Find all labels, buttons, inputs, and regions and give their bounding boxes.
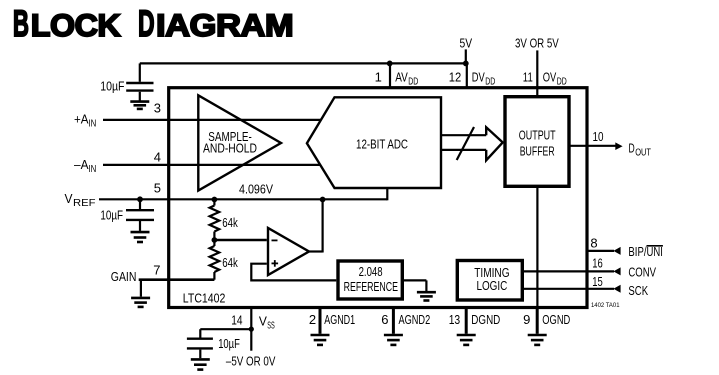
label DOUT — [629, 141, 652, 159]
label 4.096V — [239, 181, 273, 196]
svg-text:CONV: CONV — [628, 264, 656, 279]
svg-text:DD: DD — [485, 76, 495, 87]
bus wire ADC to output buffer — [441, 135, 486, 150]
svg-text:OV: OV — [543, 69, 557, 84]
wire OVDD riser to output buffer — [536, 50, 538, 96]
svg-text:SS: SS — [267, 321, 275, 332]
node 5V riser — [465, 49, 467, 63]
junction pin12 — [463, 61, 469, 67]
pin 12 tick — [466, 63, 468, 87]
capacitor C3 10uF (VSS) — [187, 329, 213, 358]
block TIMING LOGIC — [457, 261, 522, 301]
svg-text:1402 TA01: 1402 TA01 — [591, 302, 620, 309]
label GAIN — [111, 269, 137, 284]
svg-text:3: 3 — [154, 101, 161, 116]
label CONV — [628, 264, 656, 279]
svg-text:SCK: SCK — [628, 283, 648, 298]
svg-text:V: V — [259, 314, 267, 329]
label +AIN — [74, 112, 96, 130]
pin number 16 — [592, 256, 603, 271]
pin 14 VSS tick and wire — [200, 308, 254, 351]
svg-text:6: 6 — [381, 312, 388, 327]
wire AVDD bypass rail — [140, 62, 466, 64]
svg-text:12: 12 — [449, 69, 462, 84]
pin 1 tick — [389, 63, 391, 87]
svg-text:5: 5 — [154, 180, 161, 195]
bus arrowhead — [486, 127, 503, 160]
svg-text:–5V OR 0V: –5V OR 0V — [226, 354, 276, 369]
ground (AGND1) — [311, 335, 330, 345]
junction pin1 — [387, 61, 393, 67]
svg-text:AGND1: AGND1 — [324, 312, 355, 327]
svg-text:D: D — [138, 2, 154, 44]
wire inverting input — [214, 239, 266, 242]
svg-text:AND-HOLD: AND-HOLD — [203, 140, 257, 155]
pin label 13 DGND — [449, 312, 501, 327]
block OUTPUT BUFFER — [505, 97, 569, 187]
label 10uF C3 — [218, 336, 240, 351]
svg-text:1: 1 — [375, 69, 382, 84]
pin label 2 AGND1 — [309, 312, 355, 327]
ground (DGND) — [457, 335, 476, 345]
svg-text:10: 10 — [593, 129, 604, 144]
svg-text:D: D — [629, 141, 635, 156]
svg-text:GAIN: GAIN — [111, 269, 137, 284]
ground (OGND) — [528, 335, 547, 345]
svg-text:V: V — [65, 191, 73, 206]
wire DOUT pin 10 — [569, 145, 616, 147]
svg-text:2: 2 — [309, 312, 316, 327]
pin label 9 OGND — [523, 312, 570, 327]
svg-text:+A: +A — [74, 112, 89, 127]
block 12-BIT ADC — [307, 97, 441, 188]
svg-text:–A: –A — [74, 157, 89, 172]
pin number 3 — [154, 101, 161, 116]
svg-text:DV: DV — [472, 69, 485, 84]
svg-text:64k: 64k — [222, 255, 238, 270]
svg-text:OUTPUT: OUTPUT — [519, 128, 556, 143]
pin 6 AGND2 tick — [392, 308, 395, 334]
wire GAIN pin 7 — [139, 278, 215, 281]
svg-text:LOCK: LOCK — [31, 7, 121, 43]
op-amp buffer triangle (sample-and-hold) U1 — [198, 95, 281, 190]
svg-text:BUFFER: BUFFER — [520, 144, 555, 159]
label SAMPLE-AND-HOLD — [203, 129, 257, 156]
label 10uF C2 — [100, 208, 123, 223]
pin label 14 VSS — [231, 313, 275, 332]
label 12-BIT ADC — [356, 136, 408, 151]
pin label 1 AVDD — [375, 69, 419, 87]
svg-text:4: 4 — [154, 150, 161, 165]
label TIMING LOGIC — [474, 265, 509, 293]
wire VREF pin 5 / 4.096V rail — [99, 198, 387, 200]
svg-text:14: 14 — [231, 313, 242, 328]
svg-text:DD: DD — [408, 76, 418, 87]
pin 2 AGND1 tick — [319, 308, 322, 334]
svg-text:15: 15 — [592, 274, 603, 289]
svg-text:13: 13 — [449, 312, 461, 327]
ground (GAIN pin) — [131, 280, 150, 307]
pin 9 OGND tick — [536, 308, 539, 334]
svg-text:IN: IN — [89, 119, 97, 130]
svg-text:LOGIC: LOGIC — [476, 278, 507, 293]
svg-text:3V OR 5V: 3V OR 5V — [515, 36, 559, 51]
pin number 8 — [590, 235, 597, 250]
ground (C2) — [131, 232, 150, 242]
svg-text:DD: DD — [557, 76, 567, 87]
wire +AIN pin 3 — [103, 119, 321, 121]
svg-text:10µF: 10µF — [100, 79, 124, 94]
resistor R2 64k — [210, 240, 220, 280]
pin label 11 OVDD — [523, 69, 567, 87]
svg-text:7: 7 — [153, 262, 160, 277]
svg-text:5V: 5V — [460, 36, 473, 51]
minus symbol — [272, 239, 278, 241]
svg-text:AGND2: AGND2 — [399, 312, 431, 327]
pin number 10 — [593, 129, 604, 144]
resistor R1 64k — [210, 197, 220, 240]
wire riser to ADC bottom — [386, 188, 388, 200]
ground (AGND2) — [384, 335, 403, 345]
svg-text:12-BIT ADC: 12-BIT ADC — [356, 136, 408, 151]
title BLOCK DIAGRAM — [13, 2, 293, 44]
svg-text:OGND: OGND — [542, 312, 570, 327]
pin label 6 AGND2 — [381, 312, 430, 327]
pin number 5 — [154, 180, 161, 195]
arrowhead CONV — [613, 267, 620, 275]
label 1402 TA01 — [591, 302, 620, 309]
wire -AIN pin 4 — [103, 164, 320, 166]
svg-text:BIP/: BIP/ — [628, 244, 646, 259]
pin label 12 DVDD — [449, 69, 496, 87]
label 5V — [460, 36, 473, 51]
svg-text:REFERENCE: REFERENCE — [344, 279, 399, 294]
block 2.048 REFERENCE — [338, 261, 402, 299]
label BIP/UNI with overline — [628, 244, 663, 259]
svg-text:4.096V: 4.096V — [239, 181, 273, 196]
pin 13 DGND tick — [465, 308, 468, 334]
wire BIP/UNI pin 8 — [587, 250, 614, 252]
svg-text:DGND: DGND — [471, 312, 500, 327]
arrowhead DOUT — [615, 142, 622, 150]
svg-text:B: B — [13, 2, 29, 44]
svg-text:REF: REF — [73, 198, 96, 209]
svg-text:10µF: 10µF — [100, 208, 123, 223]
plus symbol — [272, 260, 279, 267]
capacitor C1 10uF (AVDD bypass) — [126, 63, 153, 100]
capacitor C2 10uF (VREF) — [126, 196, 154, 230]
wire op-amp output riser to 4.096V rail — [309, 197, 326, 253]
svg-text:LTC1402: LTC1402 — [183, 290, 226, 305]
svg-text:IN: IN — [89, 164, 97, 175]
pin number 15 — [592, 274, 603, 289]
label 64k R1 — [222, 215, 238, 230]
svg-text:9: 9 — [523, 312, 530, 327]
wire SCK pin 15 — [522, 288, 614, 290]
label SCK — [628, 283, 648, 298]
label 2.048 REFERENCE — [344, 264, 399, 294]
label 10uF C1 — [100, 79, 124, 94]
label -5V OR 0V — [226, 354, 276, 369]
svg-text:64k: 64k — [222, 215, 238, 230]
arrowhead SCK — [613, 285, 620, 293]
pin number 4 — [154, 150, 161, 165]
label 3V OR 5V — [515, 36, 559, 51]
bus slash — [457, 127, 474, 160]
wire non-inverting input to 2.048 reference — [251, 264, 336, 281]
ground (reference) — [417, 292, 436, 300]
wire output buffer to OGND pin 9 — [536, 186, 538, 307]
chip outline LTC1402 — [169, 88, 587, 308]
label LTC1402 — [183, 290, 226, 305]
svg-text:IAGRAM: IAGRAM — [156, 7, 293, 43]
svg-text:10µF: 10µF — [218, 336, 240, 351]
svg-text:16: 16 — [592, 256, 603, 271]
ground (C3) — [191, 359, 210, 369]
label OUTPUT BUFFER — [519, 128, 556, 159]
svg-text:AV: AV — [395, 69, 408, 84]
label VREF — [65, 191, 96, 209]
ground (C1) — [130, 102, 149, 109]
wire CONV pin 16 — [522, 270, 614, 272]
label 64k R2 — [222, 255, 238, 270]
pin number 7 — [153, 262, 160, 277]
label -AIN — [74, 157, 96, 175]
svg-text:2.048: 2.048 — [359, 264, 383, 279]
svg-text:8: 8 — [590, 235, 597, 250]
wire reference to ground — [402, 280, 426, 291]
arrowhead BIP/UNI — [613, 247, 620, 255]
op-amp U2 reference buffer — [268, 228, 309, 275]
svg-text:OUT: OUT — [635, 147, 651, 158]
svg-text:11: 11 — [523, 69, 533, 84]
junction R1/R2 node — [212, 237, 218, 243]
